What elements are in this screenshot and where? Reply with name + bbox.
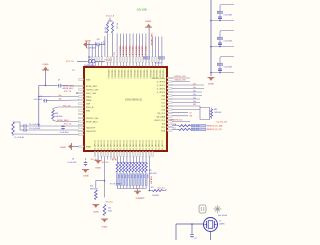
svg-text:D_GPIO12: D_GPIO12 bbox=[127, 140, 129, 149]
svg-text:0.1uF 0603: 0.1uF 0603 bbox=[60, 132, 69, 134]
svg-text:VDD18_LV: VDD18_LV bbox=[158, 70, 160, 80]
svg-text:VDD_18: VDD_18 bbox=[155, 63, 162, 65]
svg-text:D1a: D1a bbox=[193, 84, 196, 86]
svg-text:DS90UB948-Q1: DS90UB948-Q1 bbox=[125, 99, 143, 102]
svg-text:VDD18_LV: VDD18_LV bbox=[107, 70, 109, 80]
svg-text:D_GPIO12: D_GPIO12 bbox=[123, 140, 125, 149]
svg-text:D_GPIO12: D_GPIO12 bbox=[98, 140, 100, 149]
svg-text:Dx1: Dx1 bbox=[162, 102, 165, 104]
svg-text:R1?: R1? bbox=[151, 187, 154, 189]
svg-text:VDD18_LV: VDD18_LV bbox=[126, 70, 128, 80]
svg-text:VDD18_LV: VDD18_LV bbox=[162, 70, 164, 80]
svg-text:VCC 4.0: VCC 4.0 bbox=[106, 201, 113, 203]
svg-text:D_GPIO12: D_GPIO12 bbox=[143, 140, 145, 149]
svg-text:CMLOUTN: CMLOUTN bbox=[86, 131, 96, 133]
svg-text:D_GPIO0: D_GPIO0 bbox=[157, 81, 165, 83]
svg-text:DGND: DGND bbox=[145, 21, 151, 23]
svg-text:MODE_SEL0: MODE_SEL0 bbox=[86, 121, 97, 123]
svg-text:IDX0: IDX0 bbox=[130, 175, 132, 179]
svg-text:I2S_CLK: I2S_CLK bbox=[157, 113, 165, 115]
svg-text:D_GPIO12: D_GPIO12 bbox=[117, 140, 119, 149]
svg-text:VCC 1.8: VCC 1.8 bbox=[64, 91, 71, 93]
svg-text:0.1uF 0603: 0.1uF 0603 bbox=[33, 99, 42, 101]
svg-text:DGND: DGND bbox=[102, 227, 108, 229]
svg-text:C10: C10 bbox=[96, 39, 99, 41]
svg-text:C5 0.1uF 0603: C5 0.1uF 0603 bbox=[29, 128, 40, 130]
svg-text:4k7 0603: 4k7 0603 bbox=[150, 173, 157, 175]
svg-text:FB1: FB1 bbox=[88, 57, 91, 59]
svg-text:10k: 10k bbox=[108, 208, 111, 210]
svg-text:0.1uF 0603: 0.1uF 0603 bbox=[68, 162, 77, 164]
svg-text:SCL: SCL bbox=[173, 128, 176, 130]
svg-text:I2C3_SCL: I2C3_SCL bbox=[192, 129, 200, 131]
svg-text:FB2: FB2 bbox=[55, 113, 58, 115]
svg-text:D_GPIO1: D_GPIO1 bbox=[157, 85, 165, 87]
svg-text:D1a: D1a bbox=[193, 94, 196, 96]
svg-text:+REMOTE_SCL: +REMOTE_SCL bbox=[170, 120, 183, 122]
svg-text:0.1uF 0603: 0.1uF 0603 bbox=[224, 14, 233, 16]
svg-text:D_GPIO3: D_GPIO3 bbox=[157, 92, 165, 94]
svg-text:VDD18_LV: VDD18_LV bbox=[130, 70, 132, 80]
svg-text:VDDP12_CH0: VDDP12_CH0 bbox=[86, 89, 98, 91]
svg-text:DGND: DGND bbox=[85, 41, 91, 43]
svg-text:4k99 0603: 4k99 0603 bbox=[90, 188, 98, 190]
svg-text:VDD1.8_A: VDD1.8_A bbox=[141, 46, 144, 56]
svg-text:D_GPIO12: D_GPIO12 bbox=[152, 140, 154, 149]
svg-text:VCC 1.8: VCC 1.8 bbox=[64, 124, 71, 126]
svg-text:VCC 4.0: VCC 4.0 bbox=[104, 59, 111, 61]
svg-text:D1a: D1a bbox=[193, 87, 196, 89]
svg-text:VDD18_LV: VDD18_LV bbox=[120, 70, 122, 80]
svg-text:VCC 1.8: VCC 1.8 bbox=[63, 105, 70, 107]
svg-text:+VDD12_CH2: +VDD12_CH2 bbox=[174, 80, 186, 82]
svg-text:Dx0: Dx0 bbox=[162, 99, 165, 101]
svg-text:VCC 1.8: VCC 1.8 bbox=[106, 16, 115, 18]
svg-text:DGND: DGND bbox=[208, 84, 214, 86]
svg-text:VCC 1.8: VCC 1.8 bbox=[66, 61, 74, 63]
svg-text:MODE_SEL0: MODE_SEL0 bbox=[57, 120, 68, 122]
svg-text:RIN0b: RIN0b bbox=[86, 100, 91, 102]
svg-text:VDD1.8_A: VDD1.8_A bbox=[128, 46, 131, 56]
svg-text:REMOTE_I2C_SCL: REMOTE_I2C_SCL bbox=[207, 129, 222, 131]
svg-text:R4 4.7k: R4 4.7k bbox=[105, 27, 107, 33]
svg-text:VDD18_LV: VDD18_LV bbox=[152, 70, 154, 80]
svg-text:VDD18_LV: VDD18_LV bbox=[149, 70, 151, 80]
svg-text:IDX0: IDX0 bbox=[133, 175, 135, 179]
svg-text:VDD18_LV: VDD18_LV bbox=[142, 70, 144, 80]
svg-text:D_GPIO12: D_GPIO12 bbox=[107, 140, 109, 149]
svg-text:D_GPIO12: D_GPIO12 bbox=[133, 140, 135, 149]
svg-text:IDX0: IDX0 bbox=[143, 175, 145, 179]
svg-text:C1?: C1? bbox=[218, 12, 221, 14]
svg-text:C1?: C1? bbox=[218, 38, 221, 40]
svg-text:D_GPIO12: D_GPIO12 bbox=[162, 140, 164, 149]
svg-text:VDD18_LV: VDD18_LV bbox=[155, 70, 157, 80]
svg-text:VDDL_A: VDDL_A bbox=[86, 106, 94, 109]
svg-text:VDD18_LV: VDD18_LV bbox=[136, 70, 138, 80]
svg-text:VDDP12_CH1: VDDP12_CH1 bbox=[86, 118, 98, 120]
svg-text:D_GPIO2: D_GPIO2 bbox=[157, 88, 165, 90]
svg-text:IDX0: IDX0 bbox=[136, 175, 138, 179]
svg-text:C4 0.1uF 0603: C4 0.1uF 0603 bbox=[29, 124, 40, 126]
svg-text:I2C3_SDA: I2C3_SDA bbox=[192, 124, 201, 127]
svg-text:D_GPIO12: D_GPIO12 bbox=[155, 140, 157, 149]
svg-text:VDD18_LV: VDD18_LV bbox=[146, 70, 148, 80]
svg-text:10k 0603: 10k 0603 bbox=[152, 195, 159, 197]
svg-text:DGND: DGND bbox=[95, 167, 101, 169]
svg-text:D_GPIO12: D_GPIO12 bbox=[130, 140, 132, 149]
svg-text:10R 0603: 10R 0603 bbox=[214, 112, 221, 114]
svg-text:D1a: D1a bbox=[193, 98, 196, 100]
svg-text:VDD1.8_A: VDD1.8_A bbox=[122, 46, 125, 56]
svg-text:REMOTE_I2C_SDA: REMOTE_I2C_SDA bbox=[207, 124, 223, 127]
svg-text:D_GPIO12: D_GPIO12 bbox=[111, 140, 113, 149]
svg-text:MODE_SEL1: MODE_SEL1 bbox=[86, 86, 97, 88]
svg-text:0.1uF 0603: 0.1uF 0603 bbox=[224, 66, 233, 68]
svg-text:DAP_GND 4R: DAP_GND 4R bbox=[150, 34, 153, 47]
svg-text:I2C_SCL 2V5: I2C_SCL 2V5 bbox=[217, 122, 227, 124]
svg-text:C9: C9 bbox=[58, 80, 60, 82]
svg-text:IDX0: IDX0 bbox=[124, 175, 126, 179]
svg-text:I2S_DATA: I2S_DATA bbox=[156, 115, 165, 118]
svg-text:50a: 50a bbox=[59, 95, 62, 97]
svg-text:50b: 50b bbox=[59, 99, 62, 101]
svg-text:EPAD: EPAD bbox=[86, 146, 92, 149]
svg-text:VDD1.8_A: VDD1.8_A bbox=[125, 46, 128, 56]
svg-text:C8: C8 bbox=[72, 159, 74, 161]
svg-text:Imax 100uW: Imax 100uW bbox=[218, 215, 227, 217]
svg-text:D_GPIO12: D_GPIO12 bbox=[101, 140, 103, 149]
svg-text:VDDL_CH0: VDDL_CH0 bbox=[86, 93, 96, 95]
svg-text:R10: R10 bbox=[90, 185, 93, 187]
svg-text:IDX0: IDX0 bbox=[127, 175, 129, 179]
svg-text:VDD1.8_A: VDD1.8_A bbox=[138, 46, 141, 56]
svg-text:D_GPIO12: D_GPIO12 bbox=[120, 140, 122, 149]
svg-text:25MHz: 25MHz bbox=[219, 224, 225, 226]
svg-text:IDX0: IDX0 bbox=[146, 175, 148, 179]
svg-text:Dx2: Dx2 bbox=[162, 106, 165, 108]
svg-text:0.1uF 0603: 0.1uF 0603 bbox=[86, 48, 95, 50]
svg-text:0603: 0603 bbox=[108, 211, 112, 213]
svg-text:VDD1.8_A: VDD1.8_A bbox=[134, 46, 137, 56]
svg-text:RIN1: RIN1 bbox=[86, 110, 90, 112]
svg-text:+VDD12_CH1: +VDD12_CH1 bbox=[174, 76, 186, 78]
svg-text:FB3: FB3 bbox=[214, 109, 217, 111]
svg-text:V18: V18 bbox=[114, 158, 116, 161]
svg-text:D_GPIO12: D_GPIO12 bbox=[146, 140, 148, 149]
svg-text:D1a: D1a bbox=[193, 91, 196, 93]
svg-text:DGND: DGND bbox=[83, 176, 89, 178]
svg-text:D_GPIO12: D_GPIO12 bbox=[159, 140, 161, 149]
svg-text:D0P: D0P bbox=[193, 104, 196, 106]
svg-text:PDB 4R0: PDB 4R0 bbox=[149, 177, 151, 185]
svg-text:Dx3: Dx3 bbox=[162, 109, 165, 111]
svg-text:DGND: DGND bbox=[43, 64, 49, 66]
svg-text:VCC 4.0: VCC 4.0 bbox=[158, 188, 165, 190]
svg-text:600R/100MHz: 600R/100MHz bbox=[84, 65, 95, 67]
svg-text:DGND: DGND bbox=[93, 212, 99, 214]
svg-text:DGND: DGND bbox=[60, 147, 66, 149]
svg-text:L1 4.7uH 2A: L1 4.7uH 2A bbox=[14, 136, 24, 139]
svg-text:0.1uF 0603: 0.1uF 0603 bbox=[224, 40, 233, 42]
svg-text:VDD18_LV: VDD18_LV bbox=[114, 70, 116, 80]
svg-text:10R 0603: 10R 0603 bbox=[55, 116, 62, 118]
svg-text:VDD1.8_A: VDD1.8_A bbox=[118, 46, 121, 56]
svg-text:VDD12_CLK: VDD12_CLK bbox=[154, 120, 166, 122]
svg-text:D_GPIO12: D_GPIO12 bbox=[139, 140, 141, 149]
svg-text:RIN0: RIN0 bbox=[86, 79, 90, 81]
svg-text:C6: C6 bbox=[40, 96, 42, 98]
svg-text:IDX0: IDX0 bbox=[140, 175, 142, 179]
svg-text:C1?: C1? bbox=[218, 64, 221, 66]
svg-text:VDD18_LV: VDD18_LV bbox=[139, 70, 141, 80]
svg-text:CMLOUTP: CMLOUTP bbox=[86, 127, 96, 129]
svg-text:VDD18_LV: VDD18_LV bbox=[133, 70, 135, 80]
svg-text:Y2: Y2 bbox=[219, 221, 221, 223]
svg-text:D_GPIO12: D_GPIO12 bbox=[95, 140, 97, 149]
svg-text:R? 47k FUSED: R? 47k FUSED bbox=[110, 184, 122, 186]
svg-text:+MODE_SEL1: +MODE_SEL1 bbox=[62, 88, 73, 90]
svg-text:D1a: D1a bbox=[193, 101, 196, 103]
svg-text:V18: V18 bbox=[111, 158, 113, 161]
svg-text:IDX0: IDX0 bbox=[120, 175, 122, 179]
svg-text:VDD18_LV: VDD18_LV bbox=[123, 70, 125, 80]
svg-text:VCC 4.0: VCC 4.0 bbox=[102, 162, 109, 164]
svg-text:CP: CP bbox=[190, 112, 192, 114]
svg-text:R5: R5 bbox=[150, 170, 152, 172]
svg-text:IDX0: IDX0 bbox=[117, 175, 119, 179]
svg-text:1.8V LINK: 1.8V LINK bbox=[137, 10, 148, 12]
svg-text:D_GPIO12: D_GPIO12 bbox=[114, 140, 116, 149]
svg-text:D_GPIO12: D_GPIO12 bbox=[136, 140, 138, 149]
svg-text:[grn]: [grn] bbox=[141, 198, 145, 200]
svg-text:D_GPIO12: D_GPIO12 bbox=[149, 140, 151, 149]
svg-text:VDD1.8_A: VDD1.8_A bbox=[144, 46, 147, 56]
svg-text:VDD1.8_A: VDD1.8_A bbox=[131, 46, 134, 56]
svg-text:SCL: SCL bbox=[161, 127, 165, 129]
svg-text:VDD18_LV: VDD18_LV bbox=[117, 70, 119, 80]
svg-text:R5 4.7k: R5 4.7k bbox=[115, 23, 117, 29]
svg-text:VDD18_LV: VDD18_LV bbox=[110, 70, 112, 80]
svg-text:D_GPIO12: D_GPIO12 bbox=[104, 140, 106, 149]
